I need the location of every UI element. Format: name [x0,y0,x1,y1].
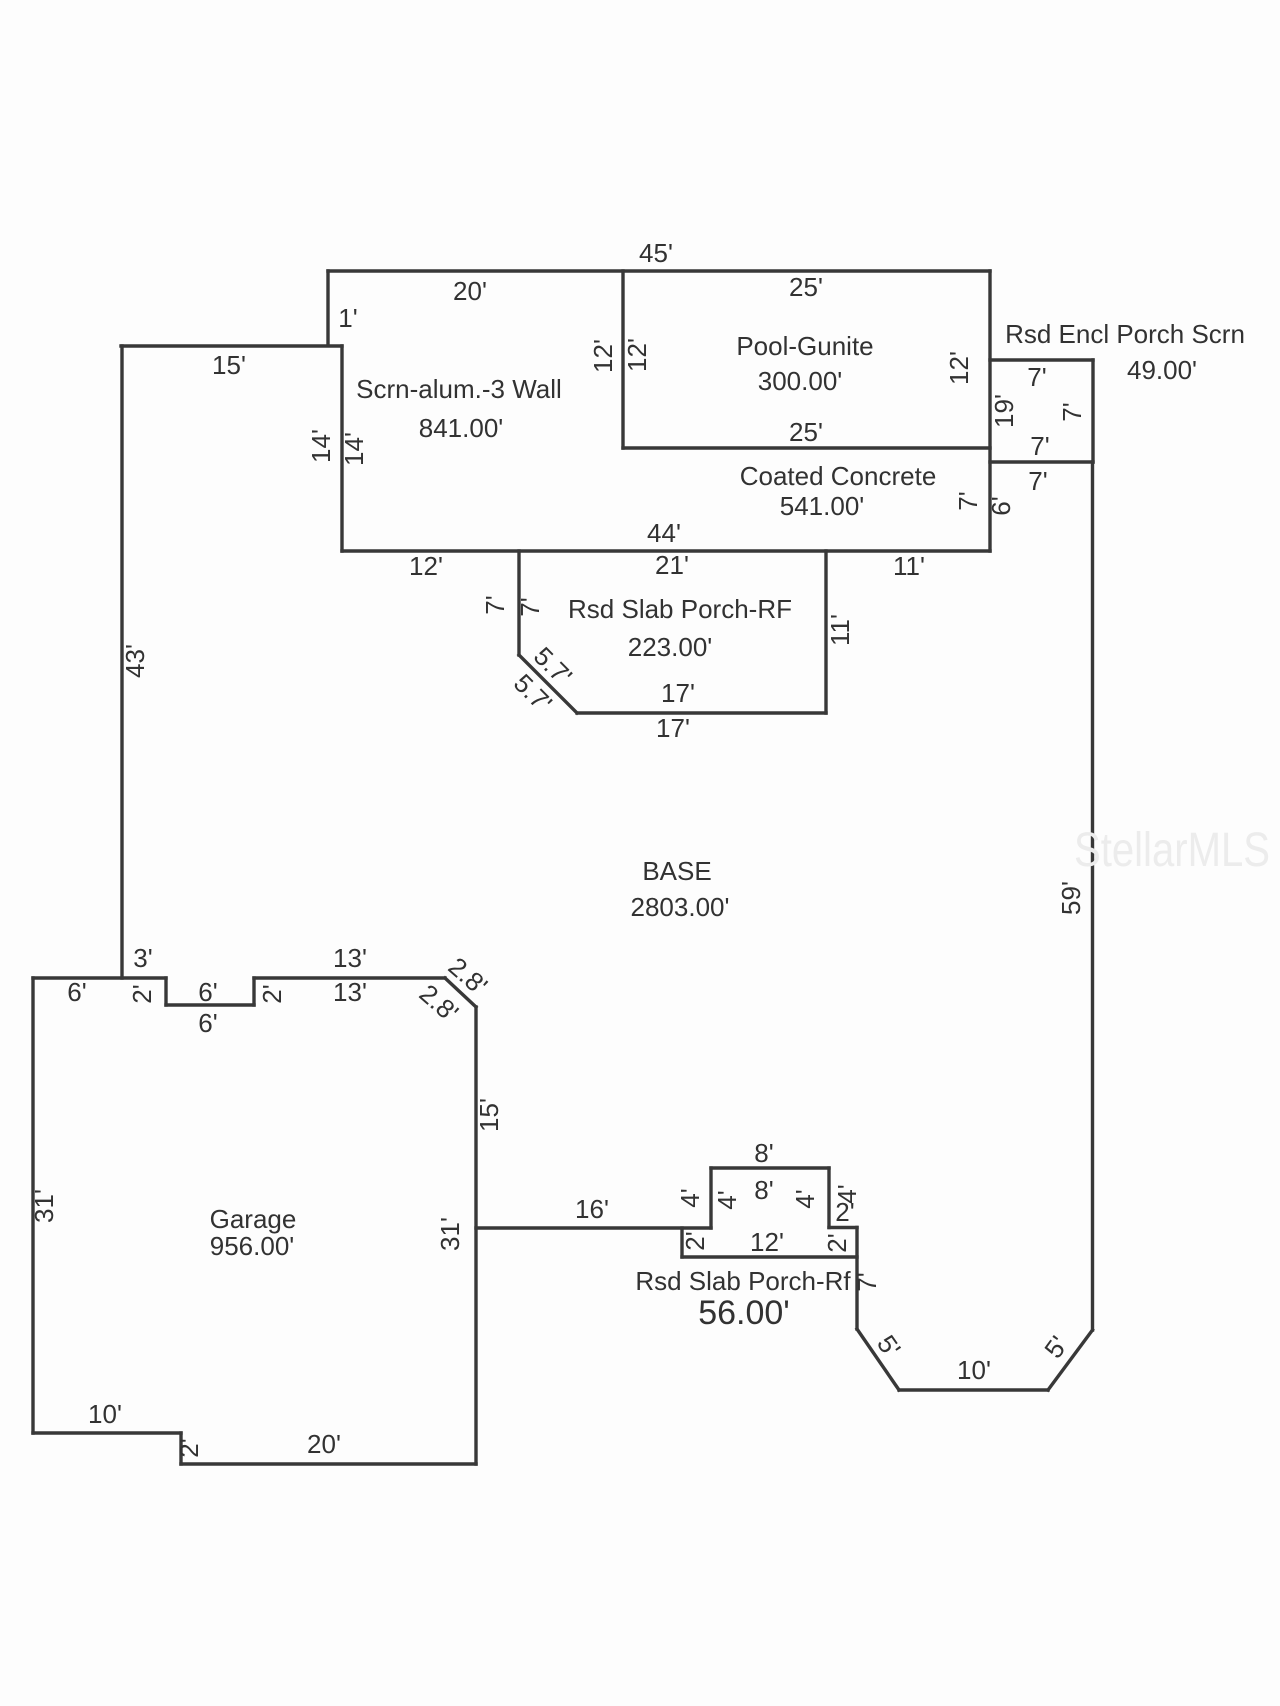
svg-text:12': 12' [409,551,443,581]
svg-text:10': 10' [957,1355,991,1385]
label: 5.7' diagonal inner [528,641,578,691]
wall: slab porch RF diagonal 5.7' [519,655,577,713]
wall: porch rf left 4' [709,1168,712,1228]
wall: garage jog up 2' [252,978,255,1005]
svg-text:2803.00': 2803.00' [631,892,730,922]
svg-text:12': 12' [588,339,618,373]
svg-text:13': 13' [333,943,367,973]
svg-text:7': 7' [515,597,545,616]
svg-text:15': 15' [474,1098,504,1132]
svg-text:6': 6' [198,1008,217,1038]
svg-text:2': 2' [257,984,287,1003]
svg-text:59': 59' [1056,881,1086,915]
svg-text:8': 8' [754,1175,773,1205]
wall: garage top 13' [254,976,445,979]
label: 4' rotated porch 2 [712,1190,742,1209]
wall: garage step 2' [179,1433,182,1464]
svg-text:4': 4' [675,1188,705,1207]
svg-text:541.00': 541.00' [780,491,865,521]
svg-text:7': 7' [1028,466,1047,496]
label: 2' rotated porch left [680,1231,710,1250]
label: 7' rotated concrete right [953,491,983,510]
label: 2' rotated porch right [822,1233,852,1252]
svg-text:2': 2' [174,1438,204,1457]
svg-text:13': 13' [333,977,367,1007]
svg-text:Coated Concrete: Coated Concrete [740,461,937,491]
svg-text:43': 43' [120,644,150,678]
svg-text:15': 15' [212,350,246,380]
label: 31' rotated garage left [29,1189,59,1223]
label: 2' rotated garage jog left [127,984,157,1003]
wall: enclosure right edge 19' [988,271,991,551]
svg-text:10': 10' [88,1399,122,1429]
svg-text:31': 31' [29,1189,59,1223]
wall: enclosure bottom 44' [342,549,990,552]
svg-text:Garage: Garage [210,1204,297,1234]
svg-text:14': 14' [339,432,369,466]
wall: encl porch scrn divider 7' [990,460,1093,463]
wall: screen enclosure top 45' [328,269,990,272]
svg-text:7': 7' [1030,431,1049,461]
svg-text:44': 44' [647,518,681,548]
svg-text:12': 12' [622,338,652,372]
wall: pool left 12' [621,271,624,448]
wall: garage bottom 20' [181,1462,476,1465]
label: 5' diagonal left [871,1329,907,1362]
wall: porch lower bottom 12' [682,1255,857,1258]
svg-text:7': 7' [480,595,510,614]
wall: garage jog bottom 6' [166,1003,254,1006]
wall: base edge 7' [855,1228,858,1330]
wall: base diagonal 5' right [1048,1330,1093,1390]
svg-text:2': 2' [680,1231,710,1250]
wall: garage jog down 2' [164,978,167,1005]
wall: porch lower left 2' [680,1228,683,1257]
wall: base bottom 16' [476,1226,711,1229]
svg-text:7': 7' [852,1272,882,1291]
wall: garage right 31' [474,1007,477,1464]
wall: garage bottom 10' [33,1431,181,1434]
svg-text:6': 6' [198,977,217,1007]
label: 2.8' diagonal outer [443,951,494,1001]
label: 7' rotated slab left inner [515,597,545,616]
svg-text:12': 12' [944,351,974,385]
svg-text:4': 4' [790,1189,820,1208]
wall: porch rf jog 2' [829,1226,857,1229]
svg-text:223.00': 223.00' [628,632,713,662]
label: 4' rotated porch 1 [675,1188,705,1207]
svg-text:20': 20' [453,276,487,306]
svg-text:Pool-Gunite: Pool-Gunite [736,331,873,361]
svg-text:21': 21' [655,550,689,580]
svg-text:17': 17' [661,678,695,708]
label: 4' rotated porch 4 [832,1184,862,1203]
label: 11' rotated slab right [825,614,855,646]
wall: slab porch RF bottom 17' [577,711,826,714]
svg-text:49.00': 49.00' [1127,355,1197,385]
svg-text:1': 1' [338,303,357,333]
label: 6' rotated [986,496,1016,515]
svg-text:16': 16' [575,1194,609,1224]
label: 2.8' diagonal inner [414,978,465,1028]
label: 7' rotated slab left outer [480,595,510,614]
svg-text:11': 11' [825,614,855,646]
wall: garage left 31' [31,978,34,1433]
label: 31' rotated garage right [435,1217,465,1251]
label: 59' rotated [1056,881,1086,915]
svg-text:Rsd Encl Porch Scrn: Rsd Encl Porch Scrn [1005,319,1245,349]
svg-text:56.00': 56.00' [698,1294,790,1332]
label: 43' rotated [120,644,150,678]
wall: pool bottom 25' [623,446,990,449]
svg-text:11': 11' [893,551,925,581]
svg-text:19': 19' [989,394,1019,428]
wall: porch rf right 4' [827,1168,830,1228]
svg-text:7': 7' [953,491,983,510]
svg-text:7': 7' [1057,402,1087,421]
wall: base right edge 59' [1091,462,1094,1330]
label: 12' rotated pool left outer [588,339,618,373]
label: 15' rotated [474,1098,504,1132]
wall: encl porch scrn right 7' [1091,360,1094,462]
svg-text:14': 14' [306,429,336,463]
wall: 15' line with 1' jog [121,344,342,347]
svg-text:12': 12' [750,1227,784,1257]
label: 2' rotated garage jog right [257,984,287,1003]
label: 19' rotated [989,394,1019,428]
svg-text:BASE: BASE [642,856,711,886]
label: 7' rotated base edge [852,1272,882,1291]
svg-text:6': 6' [67,977,86,1007]
svg-text:2': 2' [822,1233,852,1252]
wall: base bottom 10' [899,1388,1048,1391]
label: 12' rotated pool right [944,351,974,385]
label: 5.7' diagonal outer [508,668,558,718]
svg-text:31': 31' [435,1217,465,1251]
svg-text:StellarMLS: StellarMLS [1074,824,1270,877]
svg-text:841.00': 841.00' [419,413,504,443]
svg-text:6': 6' [986,496,1016,515]
wall: encl porch scrn top 7' [990,358,1093,361]
label: 4' rotated porch 3 [790,1189,820,1208]
wall: garage diagonal 2.8' [445,978,476,1007]
label: 2' rotated garage bottom step [174,1438,204,1457]
wall: garage top 6'+3' [33,976,166,979]
svg-text:2': 2' [127,984,157,1003]
wall: porch rf top 8' [711,1166,829,1169]
svg-text:3': 3' [133,943,152,973]
label: 14' rotated outer [306,429,336,463]
wall: base diagonal 5' left [857,1329,899,1390]
svg-text:4': 4' [712,1190,742,1209]
label: 14' rotated inner [339,432,369,466]
svg-text:300.00': 300.00' [758,366,843,396]
label: 5' diagonal right [1038,1330,1074,1363]
wall: slab porch RF left 7' [517,551,520,655]
label: 7' rotated porch right [1057,402,1087,421]
wall: slab porch RF right 11' [824,551,827,713]
svg-text:956.00': 956.00' [210,1231,295,1261]
svg-text:8': 8' [754,1138,773,1168]
svg-text:4': 4' [832,1184,862,1203]
svg-text:25': 25' [789,272,823,302]
svg-text:17': 17' [656,713,690,743]
label: 12' rotated pool left inner [622,338,652,372]
svg-text:Rsd Slab Porch-RF: Rsd Slab Porch-RF [568,594,792,624]
svg-text:25': 25' [789,417,823,447]
svg-text:Scrn-alum.-3 Wall: Scrn-alum.-3 Wall [356,374,562,404]
svg-text:45': 45' [639,238,673,268]
svg-text:Rsd Slab Porch-Rf: Rsd Slab Porch-Rf [635,1266,851,1296]
svg-text:7': 7' [1027,362,1046,392]
wall: enclosure upper-left vertical [326,271,329,345]
wall: base left edge 43' [120,346,123,978]
wall: scrn-alum left edge 14' [340,346,343,551]
svg-text:20': 20' [307,1429,341,1459]
